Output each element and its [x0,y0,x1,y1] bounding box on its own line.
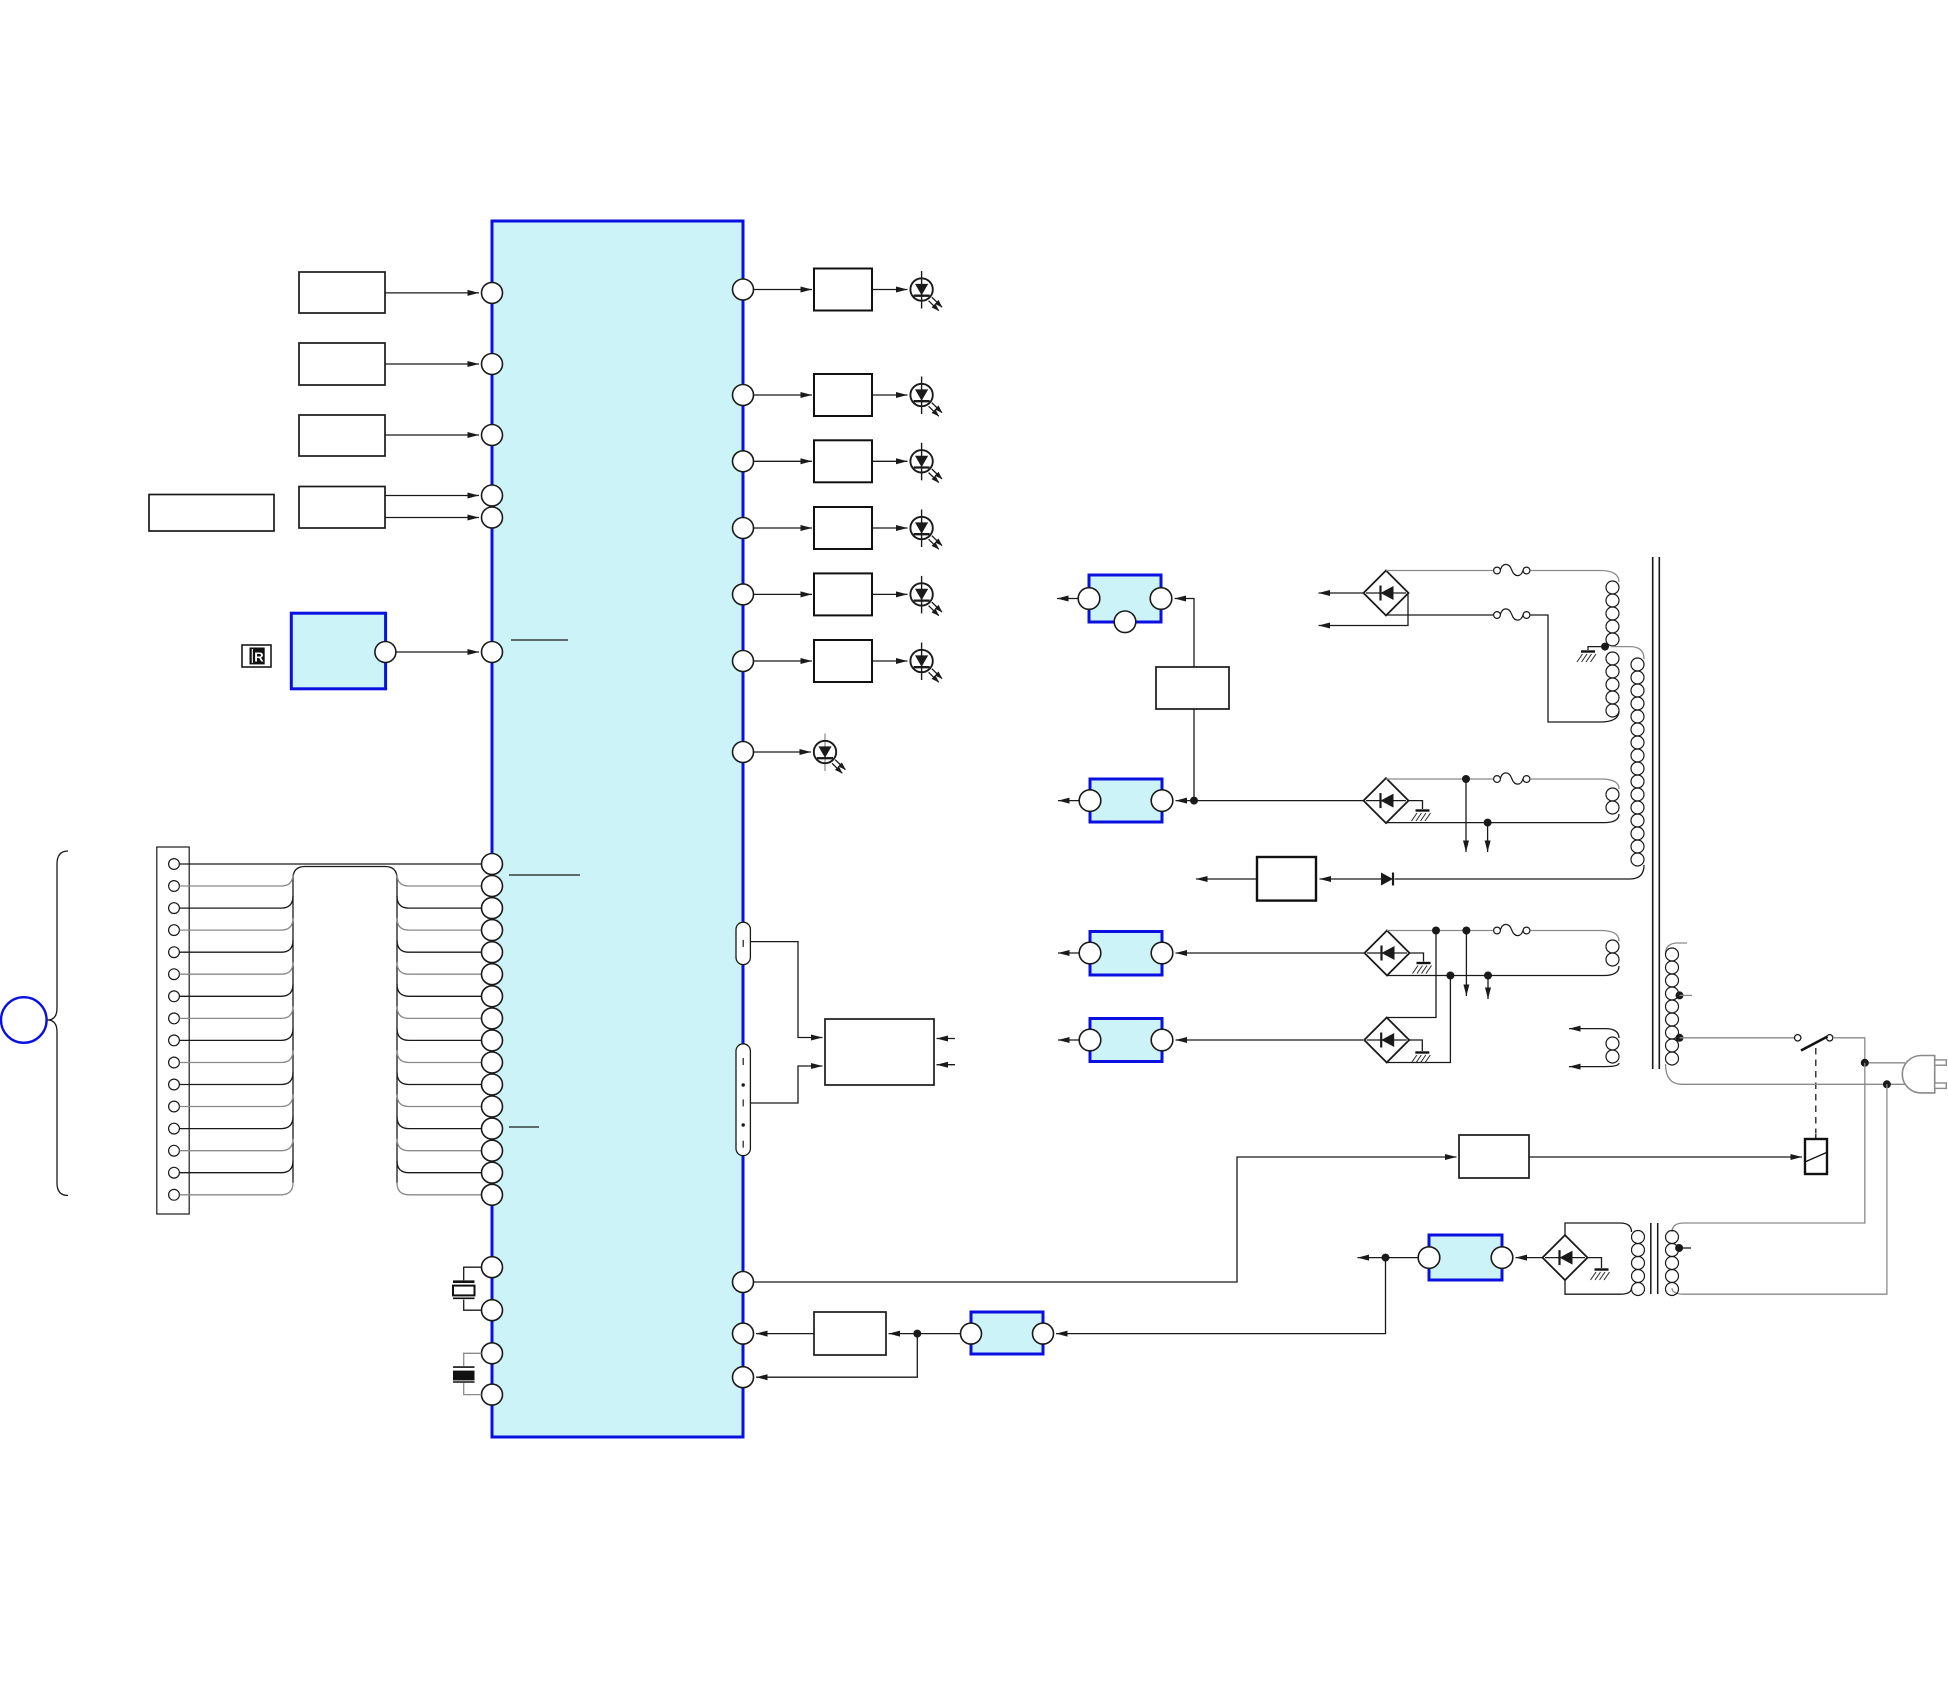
T2 secondary winding [1620,1223,1645,1296]
U1 pin (LED drive 6) [733,651,754,672]
ground (D15) [1588,1258,1610,1280]
U1 pin (LED drive 5) [733,584,754,605]
wire winding S1b to diode D5 [1395,878,1631,880]
fuse F1b [1494,609,1530,620]
wire driver 6 to LED [872,660,908,662]
wire neutral rail down to T2 primary [1672,1084,1887,1294]
S1 center tap junction [1601,643,1609,651]
wire IC3 output arrow [1058,952,1079,954]
voltage regulator IC1 [1078,575,1172,633]
IR sensor output pin [375,642,396,663]
wire bridge D12 to IC2 [1176,800,1364,802]
5V filter block (near U1) [971,1312,1043,1354]
reset IC block [814,1312,886,1355]
ground (D13) [1410,953,1432,974]
svg-text:R: R [254,650,264,665]
LED driver block 6 [814,640,872,682]
wire key row 15 [180,1161,482,1173]
CN1 contact 2 [169,881,180,892]
wire diode D5 to AC detect block [1320,878,1382,880]
U1 key scan pin 3 [482,898,503,919]
U1 key scan pin 12 [482,1096,503,1117]
LED driver block 3 [814,440,872,482]
U1 key scan pin 2 [482,876,503,897]
wire block A2 to U1 pin [385,363,479,365]
wire winding S2 top to D12 (fused) [1386,778,1601,780]
wire block A4 to U1 pin (upper) [385,495,479,497]
voltage detector block [1156,667,1229,709]
wire key row 9 [180,1028,482,1040]
U1 key scan pin 10 [482,1052,503,1073]
wire key row 11 [180,1073,482,1085]
CN1 contact 14 [169,1145,180,1156]
CN1 contact 6 [169,969,180,980]
wire U1 power control to relay driver [754,1157,1457,1282]
wire reset IC to U1 reset pin [756,1333,814,1335]
key matrix wire bus (riser hump) [293,867,397,1183]
junction dot neutral/standby [1883,1080,1891,1088]
AC plug P1 [1902,1056,1946,1093]
wire grid port to display block [750,1066,822,1103]
U1 key scan pin 11 [482,1074,503,1095]
wire U1 to LED driver 4 [754,527,812,529]
LED indicator D5 [910,576,942,616]
junction dot reset rail [913,1330,921,1338]
wire key row 8 [180,1006,482,1018]
wire segment port to display block [750,942,822,1038]
wire driver 5 to LED [872,593,908,595]
U1 pin (LED drive 1) [733,279,754,300]
T1 secondary winding S1b (9V) [1611,647,1644,879]
wire driver 2 to LED [872,394,908,396]
voltage regulator IC2 [1079,779,1173,822]
transformer T1 core [1653,557,1660,1069]
U1 pin (A3 input) [482,425,503,446]
wire switch to AC plug (live) [1833,1038,1905,1063]
wire U1 to LED driver 3 [754,460,812,462]
U1 pin (A4 lower) [482,507,503,528]
diode D5 [1381,873,1393,886]
U1 display grid port (large pill) [736,1044,750,1156]
wire AC detect output arrow [1196,878,1257,880]
wire T2 secondary top to bridge D15 [1565,1223,1620,1236]
wire key row 6 [180,962,482,974]
P1 tap junction (voltage select) [1676,991,1693,999]
wire IR sensor to U1 [396,651,479,653]
U1 key scan pin 6 [482,964,503,985]
main microcontroller IC U1 (system control) [492,221,743,1437]
U1 key scan pin 13 [482,1118,503,1139]
fuse F3 [1494,924,1530,935]
power switch S1 [1795,1035,1833,1051]
wire winding S1 bottom to D11 (fused) [1386,615,1600,722]
U1 key scan pin 4 [482,920,503,941]
key board connector CN1 [157,847,189,1214]
wire IC4 output arrow [1058,1039,1079,1041]
CN1 contact 13 [169,1123,180,1134]
LED driver block 5 [814,573,872,615]
wire key row 1 (straight) [180,863,482,865]
wire U1 to LED driver 2 [754,394,812,396]
wire U1 to LED driver 6 [754,660,812,662]
LED indicator D4 [910,510,942,550]
CN1 contact 4 [169,925,180,936]
wire driver 3 to LED [872,460,908,462]
wire detector rail to IC1 input [1175,599,1195,668]
wire bridge D13 to IC3 [1176,952,1365,954]
U1 pin (remote in) [482,642,503,663]
wire key row 7 [180,984,482,996]
U1 key scan pin 14 [482,1140,503,1161]
U1 pin (A4 upper) [482,485,503,506]
dashed mechanical link switch to relay [1815,1048,1817,1133]
U1 pin (LED drive 4) [733,518,754,539]
U1 key scan pin 1 [482,854,503,875]
wire key row 14 [180,1139,482,1151]
input block A1 [299,272,385,313]
CN1 contact 1 [169,859,180,870]
wire crystal X1 to U1 [464,1267,482,1310]
wire IC1 output arrow [1057,598,1078,600]
wire U1 to LED D7 [754,751,811,753]
CN1 contact 7 [169,991,180,1002]
wire display supply stub 1 [937,1038,956,1040]
wire U1 to LED driver 1 [754,289,812,291]
U1 pin (OSC2 a) [482,1343,503,1364]
wire relay driver to relay coil [1529,1156,1802,1158]
wire P1 bottom to AC plug (neutral) [1682,1083,1905,1085]
T2 core [1651,1223,1658,1294]
bridge rectifier D12 [1364,778,1409,823]
U1 pin (OSC1 b) [482,1300,503,1321]
junction dot standby 5V [1382,1254,1390,1262]
LED driver block 2 [814,374,872,416]
ground (D12) [1409,801,1431,821]
T1 secondary winding S3 [1601,931,1619,976]
wire IC2 output arrow [1058,800,1079,802]
bridge rectifier D15 [1543,1235,1588,1280]
wire winding S3 top to D13 (fused) [1387,930,1601,932]
P1 live tap junction [1676,1034,1684,1042]
wire key row 4 [180,918,482,930]
U1 pin (LED drive 3) [733,451,754,472]
bridge rectifier D14 [1364,1018,1409,1063]
CN1 contact 11 [169,1079,180,1090]
LED indicator D1 [910,271,942,311]
U1 key scan pin 9 [482,1030,503,1051]
U1 key scan pin 16 [482,1184,503,1205]
input block A4 [299,487,385,529]
relay driver block [1459,1135,1529,1178]
wire key row 5 [180,940,482,952]
U1 key scan pin 5 [482,942,503,963]
T1 primary winding P1 [1666,943,1688,1084]
wire D11 output arrow 2 [1319,593,1409,626]
CN1 contact 8 [169,1013,180,1024]
crystal X1 [453,1282,475,1299]
LED driver block 4 [814,507,872,549]
fuse F1 [1494,564,1530,575]
fluorescent display block [825,1019,934,1085]
wire key row 16 [180,1183,482,1195]
wire D13 bottom rail down to D14 bottom [1387,972,1455,1063]
junction dot live/standby [1861,1059,1869,1067]
U1 key scan pin 15 [482,1162,503,1183]
wire key row 13 [180,1117,482,1129]
wire U1 to LED driver 5 [754,593,812,595]
wire filament arrow 1 [1569,1028,1605,1030]
U1 pin (OSC2 b) [482,1384,503,1405]
wire 5V to reset IC [889,1333,961,1335]
U1 key scan pin 7 [482,986,503,1007]
input block A2 [299,343,385,385]
wire key row 3 [180,896,482,908]
remote control receiver icon [242,645,271,667]
wire key row 10 [180,1051,482,1063]
wire live rail down to T2 primary [1672,1063,1865,1232]
bridge rectifier D13 [1365,931,1410,976]
wire filament arrow 2 [1569,1066,1605,1068]
U1 key scan pin 8 [482,1008,503,1029]
wire display supply stub 2 [937,1064,956,1066]
CN1 contact 12 [169,1101,180,1112]
CN1 contact 15 [169,1167,180,1178]
U1 pin (Vcc sense) [733,1367,754,1388]
wire driver 1 to LED [872,289,908,291]
wire D15 to standby regulator IC5 [1516,1257,1543,1259]
T1 filament winding S4 [1605,1029,1619,1067]
brace grouping key switches [48,851,69,1196]
wire D11 output arrow 1 [1319,592,1364,594]
5V filter output pin [1033,1323,1054,1344]
wire winding S1 top to D11 (fused) [1386,570,1600,572]
input block A3 [299,415,385,456]
U1 pin (reset in) [733,1323,754,1344]
wire resonator X2 to U1 [464,1353,482,1394]
wire D13 top rail down to D14 top [1387,927,1440,1018]
CN1 contact 9 [169,1035,180,1046]
smoothing cap arrow C2b [1484,819,1492,852]
wire reset rail to U1 Vcc sense [756,1334,917,1378]
U1 pin (A1 input) [482,282,503,303]
LED driver block 1 [814,269,872,311]
U1 pin (LED drive 7) [733,742,754,763]
U1 pin (A2 input) [482,354,503,375]
label plate (blank) [149,495,274,532]
T2 primary winding [1666,1231,1692,1296]
voltage regulator IC4 [1079,1019,1173,1062]
wire winding S3 bottom to D13 [1387,975,1604,977]
IR remote sensor module [291,613,385,689]
standby regulator IC5 [1418,1235,1513,1280]
wire P1 tap to power switch [1680,1037,1795,1039]
bridge rectifier D11 [1364,571,1409,616]
LED indicator D6 [910,643,942,683]
smoothing cap arrow C3a [1462,927,1470,997]
wire key row 12 [180,1095,482,1107]
U1 pin (power control out) [733,1272,754,1293]
wire IC5 output arrow [1358,1257,1419,1259]
CN1 contact 10 [169,1057,180,1068]
U1 display segment port (small pill) [736,922,750,964]
5V filter input pin [961,1323,982,1344]
wire block A3 to U1 pin [385,434,479,436]
LED indicator D7 [814,734,846,774]
relay RY1 coil [1805,1134,1827,1175]
U1 pin (LED drive 2) [733,385,754,406]
LED indicator D2 [910,377,942,417]
ceramic resonator X2 [453,1367,475,1382]
voltage regulator IC3 [1079,932,1173,976]
wire driver 4 to LED [872,527,908,529]
T1 secondary winding S2 [1601,779,1619,823]
ground (S1 center tap) [1577,647,1605,662]
CN1 contact 5 [169,947,180,958]
rotary knob (jog dial) [1,997,47,1043]
LED indicator D3 [910,443,942,483]
junction dot 9V rail [1190,797,1198,805]
AC detect block [1257,857,1316,901]
smoothing cap arrow C3b [1484,972,1492,1000]
CN1 contact 16 [169,1189,180,1200]
wire winding S2 bottom to D12 [1386,822,1604,824]
wire standby 5V to filter [1056,1258,1386,1334]
T1 secondary winding S1 (center tapped) [1600,571,1619,723]
wire key row 2 [180,874,482,886]
U1 pin (OSC1 a) [482,1257,503,1278]
ground (D14) [1409,1040,1430,1063]
fuse F2 [1494,773,1530,784]
wire detector to 9V rail [1193,709,1195,801]
smoothing cap arrow C2a [1462,775,1470,852]
CN1 contact 3 [169,903,180,914]
wire bridge D14 to IC4 [1176,1039,1364,1041]
wire block A4 to U1 pin (lower) [385,517,479,519]
wire T2 secondary bottom to bridge D15 [1565,1279,1620,1294]
wire block A1 to U1 pin [385,292,479,294]
